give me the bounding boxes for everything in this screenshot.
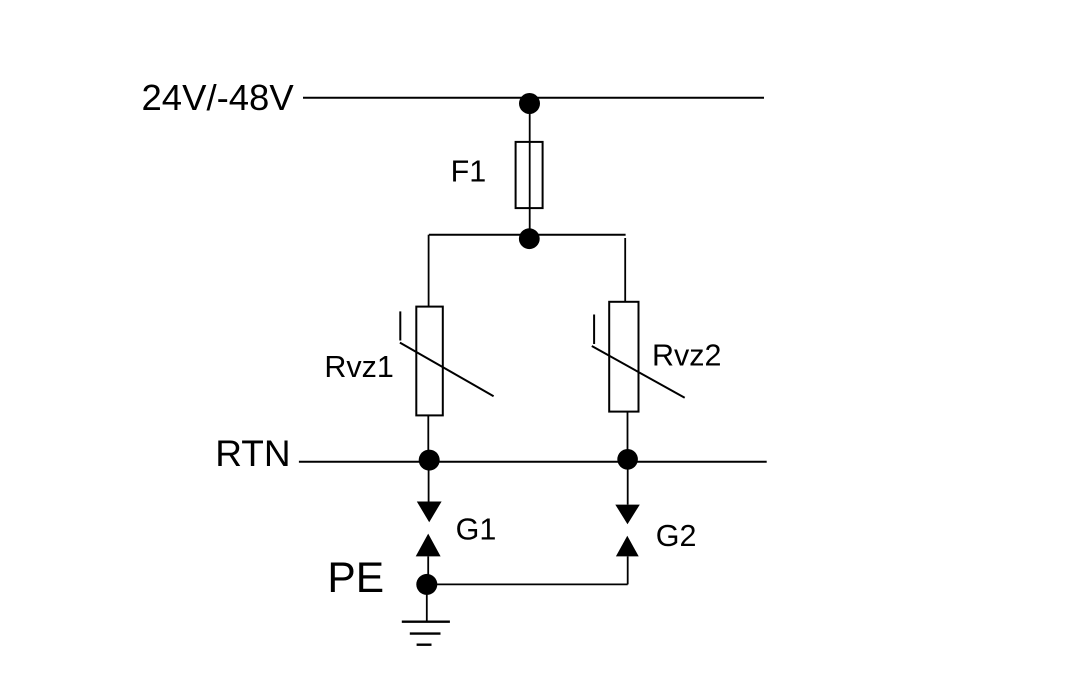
- wire branch rail: [429, 234, 626, 236]
- svg-text:G2: G2: [656, 519, 697, 553]
- junction dot RTN right: [617, 449, 638, 470]
- wire RTN rail: [299, 461, 767, 463]
- wire right branch down to Rvz2: [624, 238, 626, 302]
- wire RTN to G1: [428, 462, 430, 502]
- junction dot PE: [416, 574, 437, 595]
- junction dot at F1 output node: [519, 228, 540, 249]
- svg-text:G1: G1: [456, 513, 497, 547]
- wire G1 to PE node: [427, 556, 429, 584]
- ground: [402, 584, 450, 644]
- wire PE rail up to G2: [627, 556, 629, 584]
- wire Rvz1 to RTN rail: [427, 415, 429, 461]
- svg-text:F1: F1: [451, 154, 487, 188]
- wire Rvz2 to RTN rail: [627, 412, 629, 462]
- svg-text:PE: PE: [327, 555, 384, 602]
- wire PE rail horizontal: [427, 583, 628, 585]
- wire rail to fuse F1: [529, 98, 531, 142]
- svg-text:24V/-48V: 24V/-48V: [142, 77, 295, 118]
- svg-text:Rvz1: Rvz1: [324, 350, 394, 384]
- varistor Rvz2: [592, 302, 685, 412]
- wire 24V/-48V rail: [303, 97, 764, 99]
- svg-text:RTN: RTN: [215, 433, 290, 474]
- wire left branch down to Rvz1: [428, 235, 430, 307]
- wire RTN to G2: [627, 462, 629, 505]
- svg-text:Rvz2: Rvz2: [652, 339, 722, 373]
- gas discharge tube G1: [416, 502, 442, 557]
- junction dot RTN left: [419, 450, 440, 471]
- gas discharge tube G2: [615, 505, 640, 557]
- varistor Rvz1: [400, 307, 494, 416]
- fuse F1: [516, 142, 543, 208]
- wire fuse F1 to branch node: [529, 208, 531, 238]
- junction dot on 24V rail at F1: [519, 93, 540, 114]
